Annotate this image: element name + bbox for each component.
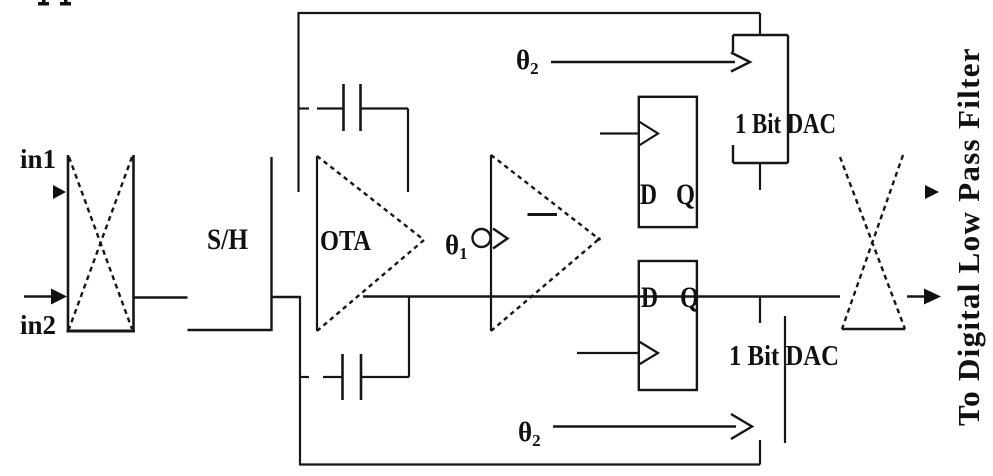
wire bottom feedback loop: [300, 463, 760, 465]
wire theta2 top arrow: [551, 61, 735, 63]
wire bottom loop up stub: [759, 440, 761, 465]
svg-text:θ1: θ1: [445, 230, 468, 263]
DAC1 box left segments: [732, 35, 734, 52]
capacitor C2 right wire: [361, 376, 409, 378]
svg-text:in2: in2: [20, 310, 56, 340]
arrowhead theta2 top: [731, 53, 750, 72]
chopper X1 right edge: [132, 155, 135, 332]
op-amp OTA top hypotenuse: [317, 156, 424, 240]
wire theta2 bottom arrow: [553, 425, 736, 427]
wire top feedback loop: [298, 12, 761, 14]
comparator U2 top hypotenuse: [491, 155, 599, 239]
node feedback left vertical (top): [297, 12, 299, 192]
capacitor C1 plates: [342, 84, 345, 131]
svg-text:in1: in1: [20, 144, 56, 174]
capacitor C2 right rise: [408, 297, 410, 377]
flip-flop FF2 clock symbol: [639, 342, 658, 365]
DAC1 box bottom: [733, 162, 788, 164]
capacitor C1 left wire: [299, 107, 310, 109]
cropped glyph feet top-left: [38, 0, 71, 6]
svg-text:1 Bit DAC: 1 Bit DAC: [735, 109, 836, 140]
junction stub below main line: [759, 297, 761, 324]
svg-text:To Digital Low Pass Filter: To Digital Low Pass Filter: [951, 47, 986, 426]
arrowhead output: [924, 289, 941, 305]
flip-flop FF1 clock wire: [600, 132, 639, 134]
capacitor C2 plates: [341, 354, 344, 400]
wire main signal line: [363, 295, 840, 297]
chopper X1 left edge: [67, 155, 70, 332]
svg-text:Q: Q: [680, 281, 699, 314]
chopper X1 cross diagonal 2: [69, 157, 132, 329]
flip-flop FF1 box: [639, 97, 697, 227]
comparator U2 left edge: [490, 155, 492, 331]
arrowhead theta2 bottom: [731, 414, 752, 439]
chopper X2 cross diagonal 2: [842, 155, 903, 329]
comparator clock bubble: [473, 229, 491, 247]
S/H switch line: [270, 157, 272, 331]
arrow in1: [53, 185, 66, 199]
arrow upper right: [925, 185, 939, 199]
node feedback left vertical (bottom): [299, 296, 301, 466]
wire S/H output to node: [272, 296, 302, 299]
capacitor C1 right wire: [361, 107, 408, 109]
op-amp OTA left edge: [316, 156, 318, 331]
svg-text:D: D: [640, 178, 657, 211]
comparator U2 bottom hypotenuse: [491, 239, 599, 331]
svg-text:1 Bit DAC: 1 Bit DAC: [729, 341, 839, 372]
svg-text:D: D: [641, 281, 658, 314]
DAC1 box top: [733, 34, 788, 36]
wire offset segment to S/H: [188, 329, 273, 332]
chopper X2 bottom edge: [842, 328, 905, 330]
svg-text:Q: Q: [676, 178, 695, 211]
DAC1 box right: [787, 35, 789, 163]
flip-flop FF1 clock symbol: [639, 122, 658, 146]
svg-text:θ2: θ2: [518, 417, 541, 450]
svg-text:S/H: S/H: [207, 223, 248, 256]
wire chopper X1 output: [134, 296, 188, 299]
svg-text:OTA: OTA: [320, 225, 371, 257]
capacitor C1 right drop: [407, 109, 409, 193]
flip-flop FF2 box: [639, 261, 697, 390]
flip-flop FF2 clock wire: [577, 352, 639, 354]
comparator U2 tip dot: [597, 237, 601, 241]
DAC2 vertical line: [784, 316, 786, 443]
arrowhead in2: [51, 289, 67, 305]
wire output segment: [907, 295, 926, 298]
capacitor C2 left wire: [300, 376, 309, 378]
comparator clock chevron: [493, 229, 508, 249]
chopper X1 bottom edge: [67, 330, 136, 333]
DAC1 bottom stub: [759, 163, 761, 190]
comparator U2 minus sign: [528, 213, 558, 216]
op-amp OTA bottom hypotenuse: [317, 240, 424, 331]
wire top loop drop into DAC1: [759, 13, 761, 35]
svg-text:θ2: θ2: [516, 45, 539, 78]
wire in2 input: [24, 295, 54, 298]
chopper X2 cross diagonal 1: [840, 157, 905, 329]
chopper X1 cross diagonal 1: [69, 157, 132, 329]
